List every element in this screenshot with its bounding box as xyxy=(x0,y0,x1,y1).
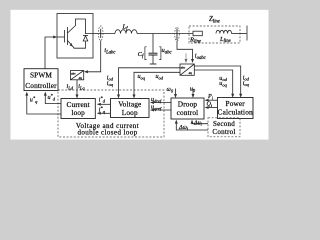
wire: transform1 output to current loop xyxy=(76,80,78,97)
inductor L_line xyxy=(216,30,232,33)
measurement bracket right xyxy=(159,47,161,60)
ground tick xyxy=(150,63,157,65)
wire: delta omega_i second control to droop xyxy=(176,121,208,130)
diode D1 xyxy=(83,35,88,37)
svg-text:iLd: iLd xyxy=(67,84,74,90)
svg-text:u0: u0 xyxy=(190,87,196,93)
wire: SPWM to inverter gate xyxy=(45,37,55,69)
wire: P power calc to droop xyxy=(206,99,218,101)
svg-text:Loop: Loop xyxy=(122,108,138,117)
transform block abc/dq #1 xyxy=(71,71,84,80)
second control dashed box xyxy=(208,118,240,137)
svg-text:ioq: ioq xyxy=(107,81,114,87)
svg-text:Δωi: Δωi xyxy=(178,125,189,131)
resistor R_line xyxy=(193,31,202,36)
svg-text:Calculation: Calculation xyxy=(218,107,253,116)
grid bus bar xyxy=(246,26,248,41)
svg-text:iLq: iLq xyxy=(78,84,85,90)
svg-text:Qi: Qi xyxy=(207,102,213,108)
transistor Q1 gate bar xyxy=(64,30,66,43)
wire: u_abc sense arrow xyxy=(185,53,187,61)
svg-text:Δui: Δui xyxy=(193,120,203,126)
transistor Q1 collector lead xyxy=(68,19,86,34)
wire: i_od i_oq to power calculation xyxy=(194,66,240,96)
svg-text:Second: Second xyxy=(213,120,235,128)
current sensor i_oabc dashed ellipse xyxy=(175,27,180,41)
wire: Q power calc to droop xyxy=(206,107,218,109)
svg-text:ω0: ω0 xyxy=(167,87,174,93)
current sensor i_Labc tick xyxy=(100,29,102,38)
droop control box xyxy=(171,98,204,119)
transistor Q1 emitter lead xyxy=(68,41,86,49)
transform block abc/dq #2 xyxy=(180,64,194,75)
svg-text:uqref: uqref xyxy=(151,105,162,111)
inverter box U1 xyxy=(57,14,93,59)
wire: i_Labc sense line xyxy=(86,41,101,72)
wire: L_f to R_line xyxy=(137,33,193,35)
wire: omega_0 into droop xyxy=(175,89,177,97)
svg-text:abc: abc xyxy=(181,66,186,70)
white figure panel xyxy=(11,10,269,140)
wire: u*_d current loop to SPWM xyxy=(45,93,61,103)
capacitor C_f bottom stem xyxy=(152,56,154,64)
transistor Q1 gate lead xyxy=(57,36,65,38)
capacitor C_f plates xyxy=(149,52,158,54)
svg-text:loop: loop xyxy=(71,108,85,117)
svg-text:Controller: Controller xyxy=(25,81,57,90)
svg-text:dq: dq xyxy=(189,71,193,75)
wire: L_line to grid bar xyxy=(232,33,248,35)
svg-text:ioq: ioq xyxy=(243,81,250,87)
wire: u_oq u_od feed to voltage loop xyxy=(134,72,180,97)
svg-text:Control: Control xyxy=(212,128,235,136)
inductor L_f xyxy=(115,30,137,34)
wire: i*_q voltage loop to current loop xyxy=(98,112,110,114)
wire: u*_q current loop to SPWM xyxy=(27,93,61,114)
wire: u_qref droop to voltage loop xyxy=(152,109,172,111)
svg-text:double closed loop: double closed loop xyxy=(77,129,137,137)
voltage loop box xyxy=(111,99,150,118)
svg-text:udref: udref xyxy=(151,97,162,103)
transistor Q1 body bar xyxy=(67,27,69,45)
capacitor C_f branch wire xyxy=(152,34,154,53)
svg-text:uoq: uoq xyxy=(219,81,227,87)
wire: delta u_i second control to droop xyxy=(192,121,208,123)
power calculation box xyxy=(218,98,254,119)
svg-text:Pi: Pi xyxy=(207,94,214,100)
current sensor i_oabc tick xyxy=(176,29,178,40)
svg-text:control: control xyxy=(177,108,199,117)
measurement bracket left xyxy=(145,47,147,60)
svg-text:uod: uod xyxy=(156,74,164,80)
svg-text:uoq: uoq xyxy=(138,74,146,80)
wire: u_od u_oq to power calculation xyxy=(194,70,232,96)
current sensor i_Labc dashed ellipse xyxy=(98,26,103,41)
wire: i_od i_oq feed to voltage loop xyxy=(119,68,181,97)
svg-text:abc: abc xyxy=(71,72,76,76)
svg-text:SPWM: SPWM xyxy=(30,71,52,80)
impedance Z_line dashed box xyxy=(189,26,240,43)
wire: i_oabc sense line xyxy=(177,41,193,62)
transistor Q1 emitter arrowhead xyxy=(70,43,73,47)
wire: u_0 into droop xyxy=(192,89,194,97)
wire: u_dref droop to voltage loop xyxy=(152,102,172,104)
dashed box: voltage and current double closed loop xyxy=(58,90,164,137)
current loop box xyxy=(61,99,95,119)
page background xyxy=(0,0,279,152)
svg-text:dq: dq xyxy=(79,76,83,80)
wire: i*_d voltage loop to current loop xyxy=(98,103,110,105)
SPWM controller box xyxy=(24,69,58,91)
wire: inverter output xyxy=(86,33,116,35)
